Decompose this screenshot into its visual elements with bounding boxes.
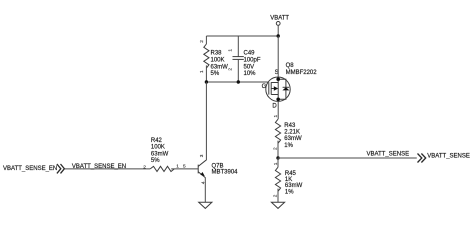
svg-text:2: 2 <box>273 194 279 197</box>
svg-text:2.21K: 2.21K <box>284 130 300 136</box>
svg-text:5%: 5% <box>211 71 220 77</box>
svg-text:C49: C49 <box>244 50 256 56</box>
svg-text:10%: 10% <box>244 71 257 77</box>
svg-text:1%: 1% <box>284 143 293 149</box>
svg-text:3: 3 <box>199 154 205 157</box>
wire gate rail <box>206 81 267 83</box>
resistor R38 <box>199 36 228 82</box>
svg-text:G: G <box>262 84 267 90</box>
body diode <box>278 79 286 87</box>
svg-text:1: 1 <box>273 115 279 118</box>
svg-text:VBATT_SENSE_EN: VBATT_SENSE_EN <box>3 166 57 172</box>
wire VBATT stub <box>277 25 279 36</box>
wire left vertical (gate rail to Q7B collector) <box>205 82 207 160</box>
svg-text:R38: R38 <box>211 50 223 56</box>
svg-text:5%: 5% <box>151 158 160 164</box>
junction dot C49 bottom <box>237 80 240 83</box>
svg-text:100K: 100K <box>151 145 165 151</box>
svg-text:63mW: 63mW <box>151 151 169 157</box>
svg-text:63mW: 63mW <box>284 136 302 142</box>
svg-text:VBATT_SENSE: VBATT_SENSE <box>427 153 470 159</box>
pin D dot <box>276 98 280 102</box>
wire top rail <box>206 35 278 37</box>
ground left <box>199 202 212 208</box>
wire input to R42 <box>65 168 150 170</box>
off-page connector VBATT_SENSE_EN input <box>3 164 64 173</box>
base bar <box>197 165 199 174</box>
svg-text:100pF: 100pF <box>244 57 261 63</box>
ground right <box>271 202 284 208</box>
svg-text:1%: 1% <box>285 190 294 196</box>
channel bar <box>270 82 272 94</box>
svg-text:VBATT_SENSE: VBATT_SENSE <box>367 151 410 157</box>
svg-text:2: 2 <box>143 164 146 170</box>
gate bar <box>268 82 270 94</box>
svg-text:MBT3904: MBT3904 <box>212 170 239 176</box>
svg-text:Q8: Q8 <box>286 63 295 69</box>
junction dot R38 bottom <box>205 80 208 83</box>
resistor R43 <box>272 115 302 159</box>
junction dot output node <box>276 156 279 159</box>
power symbol VBATT <box>270 16 289 26</box>
svg-text:VBATT_SENSE_EN: VBATT_SENSE_EN <box>72 164 126 170</box>
svg-text:63mW: 63mW <box>211 64 229 70</box>
emitter <box>198 172 205 178</box>
wire Q8 source <box>277 36 279 77</box>
bottom stub <box>271 94 278 96</box>
pin S dot <box>276 77 280 81</box>
svg-text:R43: R43 <box>284 123 296 129</box>
transistor Q8 MOSFET <box>262 63 318 109</box>
svg-text:R45: R45 <box>285 171 297 177</box>
svg-text:63mW: 63mW <box>285 183 303 189</box>
svg-text:VBATT: VBATT <box>270 16 289 22</box>
svg-text:5: 5 <box>183 164 186 170</box>
wire Q7B emitter to ground <box>204 178 206 202</box>
svg-text:1: 1 <box>176 164 179 170</box>
source-drain vertical <box>277 79 279 99</box>
svg-text:50V: 50V <box>244 64 255 70</box>
svg-text:1K: 1K <box>285 177 292 183</box>
off-page connector VBATT_SENSE output <box>418 153 470 162</box>
svg-text:2: 2 <box>272 147 278 150</box>
svg-text:R42: R42 <box>151 138 163 144</box>
body arrow <box>271 88 274 90</box>
svg-text:1: 1 <box>228 49 234 52</box>
svg-text:100K: 100K <box>211 57 225 63</box>
svg-text:2: 2 <box>199 40 205 43</box>
svg-text:D: D <box>272 103 277 109</box>
svg-text:1: 1 <box>273 162 279 165</box>
resistor R45 <box>273 158 303 202</box>
collector <box>198 160 206 166</box>
junction dot top rail / VBATT <box>277 34 280 37</box>
svg-text:1: 1 <box>199 70 205 73</box>
wire output rail <box>278 157 417 159</box>
svg-text:2: 2 <box>228 68 234 71</box>
wire Q8 drain to R43 <box>277 102 279 120</box>
resistor R42 <box>143 138 198 171</box>
capacitor C49 <box>228 36 261 82</box>
top stub <box>271 82 278 84</box>
svg-text:MMBF2202: MMBF2202 <box>286 70 318 76</box>
transistor Q7B <box>183 154 238 184</box>
